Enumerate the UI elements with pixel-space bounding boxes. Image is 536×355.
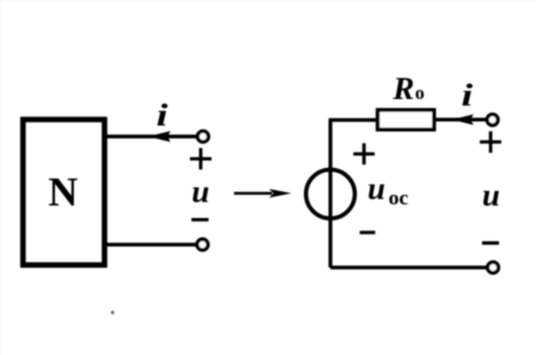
svg-text:u: u (368, 170, 386, 206)
svg-text:oc: oc (389, 186, 409, 210)
svg-text:u: u (192, 173, 210, 209)
current arrowhead i (left) (148, 131, 171, 142)
faint top edge tint (0, 0, 536, 2)
wire (left top, box to terminal) (106, 135, 197, 139)
plus sign (source) (353, 143, 374, 164)
terminal (right bottom) (488, 262, 499, 273)
voltage source Uoc (306, 170, 355, 219)
svg-text:N: N (48, 169, 78, 215)
svg-text:u: u (482, 177, 500, 213)
wire (right top, corner to resistor) (329, 118, 377, 122)
wire (left bottom, box to terminal) (106, 243, 197, 247)
network box N (23, 120, 105, 266)
minus sign (left) (192, 218, 209, 221)
terminal (left bottom) (197, 239, 208, 250)
current arrowhead i (right) (452, 114, 474, 125)
wire (right bottom) (330, 266, 487, 270)
minus sign (right) (482, 241, 499, 244)
transform arrow (equivalence) (234, 189, 292, 198)
terminal (right top) (487, 114, 498, 125)
plus sign (left) (190, 148, 212, 170)
svg-text:R: R (392, 70, 414, 106)
svg-text:i: i (156, 98, 168, 133)
label R_o (392, 70, 425, 106)
faint left edge tint (0, 0, 2, 355)
wire (right vertical) (328, 120, 332, 268)
label u_oc (368, 170, 409, 210)
wire (resistor to right terminal) (436, 118, 487, 122)
stray speck (111, 311, 115, 315)
terminal (left top) (198, 131, 209, 142)
plus sign (right) (480, 131, 502, 153)
minus sign (source) (360, 231, 376, 234)
svg-text:o: o (415, 83, 425, 104)
resistor Ro (378, 110, 434, 130)
svg-text:i: i (461, 78, 473, 113)
